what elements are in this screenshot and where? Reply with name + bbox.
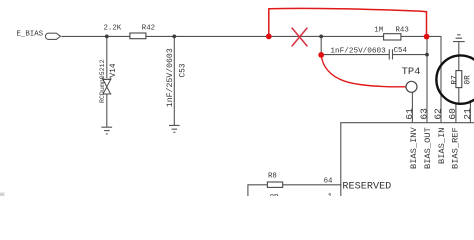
svg-text:R42: R42 [142,24,155,32]
svg-text:R8: R8 [268,173,277,181]
svg-text:BIAS_REF: BIAS_REF [451,127,461,169]
svg-text:BIAS_OUT: BIAS_OUT [423,127,433,169]
svg-text:0R: 0R [465,75,473,85]
svg-text:C53: C53 [179,63,187,77]
svg-text:BIAS_IN: BIAS_IN [437,128,447,165]
svg-text:E_BIAS: E_BIAS [17,30,44,38]
svg-text:60: 60 [447,108,458,120]
svg-text:R43: R43 [396,26,409,34]
svg-text:2.2K: 2.2K [104,24,122,32]
svg-text:C54: C54 [394,47,408,55]
svg-text:1nF/25V/0603: 1nF/25V/0603 [165,48,175,107]
svg-text:21: 21 [462,108,473,120]
svg-text:RCDump05212: RCDump05212 [99,59,106,103]
svg-text:1nF/25V/0603: 1nF/25V/0603 [330,47,386,55]
svg-text:62: 62 [432,108,443,120]
svg-text:63: 63 [419,108,430,120]
svg-text:64: 64 [324,177,333,185]
svg-text:RESERVED: RESERVED [342,182,391,193]
svg-text:V14: V14 [110,63,118,77]
svg-text:1: 1 [328,193,333,196]
svg-text:0R: 0R [270,194,279,196]
svg-text:TP4: TP4 [402,66,421,78]
svg-text:1M: 1M [374,26,383,34]
svg-text:BIAS_INV: BIAS_INV [409,127,419,169]
svg-text:R7: R7 [451,75,459,85]
svg-text:61: 61 [404,108,415,120]
